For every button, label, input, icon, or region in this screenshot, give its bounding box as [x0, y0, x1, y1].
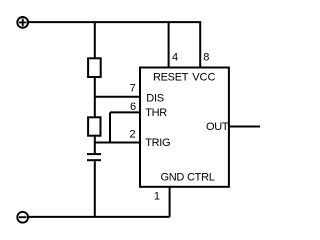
wire pin 7 DIS: [95, 96, 140, 98]
capacitor C1 bottom plate: [87, 159, 101, 161]
resistor R2: [88, 117, 100, 135]
svg-text:DIS: DIS: [146, 92, 163, 104]
wire pin 2 TRIG: [95, 142, 140, 144]
svg-text:6: 6: [130, 101, 136, 113]
svg-text:TRIG: TRIG: [145, 137, 170, 149]
svg-text:1: 1: [154, 190, 160, 202]
svg-text:THR: THR: [145, 107, 167, 119]
negative supply terminal: [17, 212, 28, 223]
positive supply terminal: [17, 17, 28, 28]
wire R1 to R2: [94, 77, 96, 117]
op-amp U1 555 timer body: [140, 68, 229, 187]
svg-text:8: 8: [203, 52, 209, 64]
resistor R1: [88, 58, 101, 77]
capacitor C1 top plate: [87, 153, 101, 155]
svg-text:RESET: RESET: [153, 71, 189, 83]
svg-text:OUT: OUT: [206, 121, 229, 133]
svg-text:7: 7: [130, 83, 136, 95]
wire capacitor to bottom rail: [94, 161, 96, 217]
wire pin 6 THR: [110, 111, 140, 113]
svg-text:VCC: VCC: [192, 71, 215, 83]
wire R2 to capacitor: [94, 136, 96, 154]
wire pin 4 RESET drop: [168, 22, 170, 67]
wire pin 1 GND drop: [169, 187, 171, 217]
svg-text:4: 4: [172, 52, 178, 64]
svg-text:GND: GND: [161, 171, 185, 183]
wire rail to R1: [94, 22, 96, 58]
wire THR to TRIG connector: [109, 112, 111, 142]
svg-text:CTRL: CTRL: [187, 171, 215, 183]
wire pin 3 OUT stub: [229, 126, 260, 128]
svg-text:2: 2: [129, 128, 135, 140]
wire top rail from + terminal to VCC corner: [28, 22, 200, 67]
wire bottom rail from - terminal to pin 1: [28, 216, 170, 218]
